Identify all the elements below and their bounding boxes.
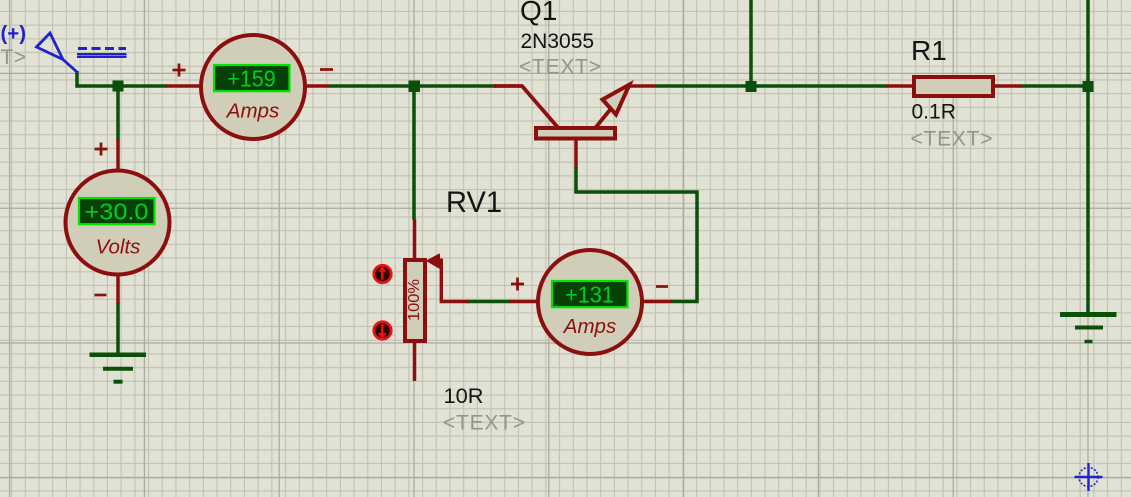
svg-text:+131: +131 [565,281,614,307]
wire W5 node B down to RV1 top pin [412,86,416,220]
svg-text:+159: +159 [227,65,276,91]
svg-text:RV1: RV1 [446,186,502,219]
svg-text:<TEXT>: <TEXT> [519,56,601,79]
potentiometer RV1 increment button [374,265,391,282]
svg-text:Amps: Amps [562,315,616,338]
ammeter AM2 - mark [656,285,668,288]
transistor Q1 emitter arrow [603,85,630,115]
node A junction dot [113,81,124,92]
transistor Q1 base stem pin [574,140,578,168]
svg-text:(+): (+) [1,23,27,45]
ammeter AM1 reading +159 [227,65,276,91]
ammeter AM1 label Amps [225,99,279,122]
svg-text:100%: 100% [406,279,423,321]
wire W1 from DC source to node A [77,71,118,86]
potentiometer RV1 body [405,260,425,341]
wire W11 resistor R1 right pin to node D [1020,84,1088,88]
wire W15 RV1 wiper to ammeter AM2 + pin [466,300,511,304]
label 2N3055 [521,30,595,53]
wire W9 node C to resistor R1 left pin [751,84,887,88]
label RV1 [446,186,502,219]
label <TEXT> of DC source (clipped at left edge) [0,46,26,69]
label (+) of DC source [1,23,27,45]
svg-text:0.1R: 0.1R [912,101,956,124]
node D junction dot [1083,81,1094,92]
svg-text:Q1: Q1 [520,0,557,26]
wire W14 Q1 base to ammeter AM2 - pin [576,167,697,302]
label 10R [444,385,484,408]
wire W7 voltmeter VM1 - pin to ground G1 [116,303,120,353]
label <TEXT> of Q1 [519,56,601,79]
label 0.1R [912,101,956,124]
ammeter AM2 label Amps [562,315,616,338]
label R1 [911,35,947,66]
DC source (+) terminal symbol [37,33,127,73]
wire W4 node B to Q1 collector pin [414,84,496,88]
ammeter AM1 + mark [173,64,186,77]
svg-text:<TEXT>: <TEXT> [0,46,26,69]
wire W2 node A to ammeter AM1 + pin [118,84,167,88]
wire W6 node A down to voltmeter VM1 + pin [116,86,120,141]
wire W8 Q1 emitter pin to node C [656,84,751,88]
potentiometer RV1 wiper arrowhead [427,254,439,267]
svg-text:R1: R1 [911,35,947,66]
svg-text:2N3055: 2N3055 [521,30,595,53]
ammeter AM1 - mark [320,68,333,71]
svg-text:<TEXT>: <TEXT> [443,412,525,435]
ammeter AM1 body [201,35,305,139]
potentiometer RV1 top pin [413,219,417,260]
node C junction dot [746,81,757,92]
svg-text:<TEXT>: <TEXT> [911,128,993,151]
potentiometer RV1 value 100% [406,279,423,321]
resistor R1 pins [886,84,1021,88]
ammeter AM2 + mark [511,278,524,291]
ammeter AM2 body [538,250,642,354]
svg-text:Amps: Amps [225,99,279,122]
ammeter AM2 reading +131 [565,281,614,307]
potentiometer RV1 bottom pin [413,341,417,381]
transistor Q1 emitter pin [628,84,656,88]
wire W13 node D down to ground G2 [1086,86,1090,315]
label <TEXT> of RV1 [443,412,525,435]
voltmeter VM1 reading +30.0 [85,198,149,224]
svg-text:+30.0: +30.0 [85,198,149,224]
potentiometer RV1 decrement button [374,322,391,339]
label Q1 [520,0,557,26]
label <TEXT> of R1 [911,128,993,151]
transistor Q1 base bar [536,128,615,139]
voltmeter VM1 label Volts [96,235,141,258]
wire W12 vertical off-screen top to node D [1086,0,1090,86]
origin marker [1075,463,1103,491]
voltmeter VM1 pins [116,140,120,304]
wire W10 vertical off-screen top to node C [749,0,753,86]
ground G1 under voltmeter [90,355,147,382]
ammeter AM1 pins [166,84,330,88]
potentiometer RV1 wiper [441,259,468,302]
resistor R1 body [914,77,993,96]
voltmeter VM1 - mark [95,294,107,297]
voltmeter VM1 body [66,171,170,275]
ground G2 right side [1060,315,1117,342]
ammeter AM2 display [552,281,628,307]
voltmeter VM1 + mark [95,143,108,156]
ammeter AM1 display [214,65,290,91]
transistor Q1 collector pin [494,86,558,127]
voltmeter VM1 display [79,198,155,224]
svg-text:10R: 10R [444,385,484,408]
node B junction dot [409,81,421,93]
ammeter AM2 pins [510,300,671,304]
transistor Q1 emitter shaft [596,108,612,127]
svg-text:Volts: Volts [96,235,141,258]
wire W3 ammeter AM1 - pin to node B [330,84,414,88]
